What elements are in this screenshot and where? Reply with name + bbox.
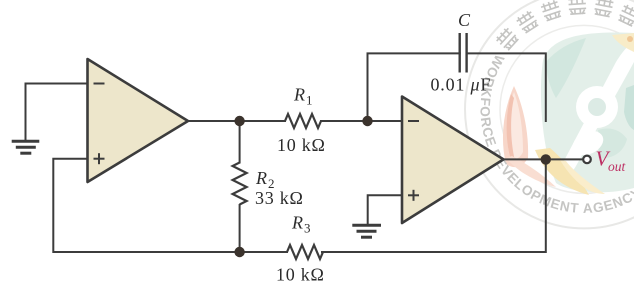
svg-text:10 kΩ: 10 kΩ [277,135,326,155]
svg-text:R: R [291,212,303,232]
svg-text:10 kΩ: 10 kΩ [276,265,325,285]
svg-text:R: R [293,85,305,105]
svg-text:out: out [608,159,627,174]
svg-text:3: 3 [304,220,311,235]
svg-text:0.01 μF: 0.01 μF [431,75,492,95]
svg-text:1: 1 [306,93,313,108]
svg-text:R: R [255,168,267,188]
svg-text:33 kΩ: 33 kΩ [255,188,304,208]
svg-text:C: C [458,10,471,30]
